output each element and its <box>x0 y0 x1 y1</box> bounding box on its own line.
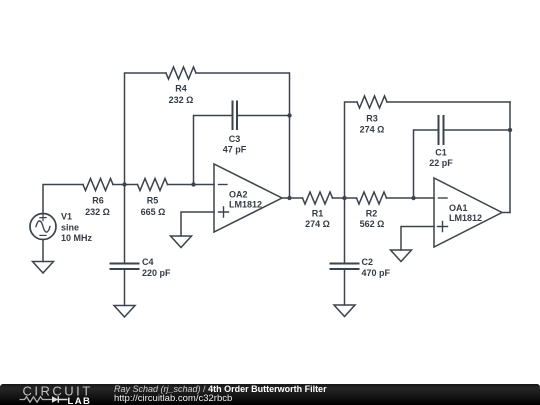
resistor R2 <box>357 192 387 204</box>
wire R1 to R2 through node C <box>333 197 357 199</box>
junction C3 feedback <box>287 113 291 117</box>
CircuitLab logo diode <box>52 396 58 402</box>
wire feedback vertical <box>509 102 511 213</box>
wire node C down to C2 <box>344 198 346 264</box>
op-amp OA2 <box>214 164 282 232</box>
svg-text:C4: C4 <box>142 257 154 267</box>
resistor R4 <box>166 67 196 79</box>
capacitor C2 <box>331 264 359 270</box>
OA2 minus pin <box>219 184 228 186</box>
svg-text:R4: R4 <box>175 84 187 94</box>
wire V1 to ground <box>42 240 44 262</box>
svg-text:C2: C2 <box>362 257 374 267</box>
svg-text:665 Ω: 665 Ω <box>141 207 166 217</box>
wire OA1 plus to ground <box>401 227 434 251</box>
wire V1 top to R6 <box>43 185 83 214</box>
wire C3 right to feedback <box>237 115 290 117</box>
svg-text:47 pF: 47 pF <box>223 145 247 155</box>
voltage source V1 <box>30 214 56 240</box>
resistor R6 <box>83 179 113 191</box>
OA1 plus pin <box>438 222 448 232</box>
svg-text:232 Ω: 232 Ω <box>169 95 194 105</box>
svg-text:R6: R6 <box>92 196 104 206</box>
V1 sine mark <box>36 221 50 232</box>
svg-text:274 Ω: 274 Ω <box>305 219 330 229</box>
op-amp OA1 <box>434 178 502 247</box>
footer bar <box>0 384 540 405</box>
V1 plus mark <box>40 215 46 221</box>
wire R6 to R5 through node A <box>113 184 138 186</box>
svg-text:C1: C1 <box>435 148 447 158</box>
svg-text:sine: sine <box>61 223 79 233</box>
wire C2 to ground <box>344 269 346 305</box>
junction C1 feedback <box>508 128 512 132</box>
wire R4 to output node <box>196 73 290 198</box>
node A junction <box>122 182 126 186</box>
svg-text:R2: R2 <box>366 209 378 219</box>
capacitor C1 <box>439 116 444 144</box>
svg-text:220 pF: 220 pF <box>142 268 171 278</box>
wire node A up to R4 <box>125 73 167 185</box>
svg-text:470 pF: 470 pF <box>362 268 391 278</box>
svg-text:22 pF: 22 pF <box>429 158 453 168</box>
wire OA1 output to feedback <box>502 212 510 214</box>
svg-text:10 MHz: 10 MHz <box>61 233 93 243</box>
capacitor C3 <box>233 102 238 130</box>
svg-text:232 Ω: 232 Ω <box>85 207 110 217</box>
junction OA2 output <box>287 196 291 200</box>
OA2 plus pin <box>219 207 229 217</box>
svg-text:562 Ω: 562 Ω <box>360 219 385 229</box>
svg-text:OA1: OA1 <box>449 203 468 213</box>
svg-text:R1: R1 <box>312 209 324 219</box>
svg-text:LM1812: LM1812 <box>449 213 482 223</box>
svg-text:C3: C3 <box>229 134 241 144</box>
wire node C up to R3 <box>345 102 358 198</box>
resistor R1 <box>303 192 333 204</box>
svg-text:LM1812: LM1812 <box>229 200 262 210</box>
node B junction <box>191 182 195 186</box>
svg-text:R5: R5 <box>147 196 159 206</box>
node C junction <box>342 196 346 200</box>
CircuitLab logo resistor squiggle <box>20 397 53 402</box>
ground V1 <box>33 262 54 274</box>
ground OA1 <box>391 250 412 262</box>
wire R5 to OA2 inverting input <box>168 184 215 186</box>
wire node D up to C1 left <box>414 130 439 198</box>
svg-text:OA2: OA2 <box>229 190 248 200</box>
resistor R5 <box>138 179 168 191</box>
footer url line <box>114 394 232 404</box>
wire C1 right to feedback <box>444 129 511 131</box>
capacitor C4 <box>111 264 139 270</box>
OA1 minus pin <box>439 197 448 199</box>
wire node B up to C3 left <box>194 116 233 185</box>
wire node A down to C4 <box>124 185 126 264</box>
ground C2 <box>334 305 355 317</box>
svg-text:274 Ω: 274 Ω <box>360 125 385 135</box>
resistor R3 <box>357 96 387 108</box>
footer author/title line <box>114 385 327 395</box>
svg-text:V1: V1 <box>61 212 72 222</box>
ground C4 <box>114 306 135 318</box>
svg-text:LAB: LAB <box>68 396 92 405</box>
wire OA2 output to R1 <box>282 197 303 199</box>
node D junction <box>411 196 415 200</box>
wire R3 to feedback corner <box>387 101 510 103</box>
wire OA2 plus to ground <box>181 212 214 236</box>
wire R2 to OA1 inverting input <box>387 197 435 199</box>
V1 minus mark <box>40 234 46 236</box>
ground OA2 <box>171 236 192 248</box>
wire C4 to ground <box>124 269 126 306</box>
svg-text:R3: R3 <box>366 114 378 124</box>
